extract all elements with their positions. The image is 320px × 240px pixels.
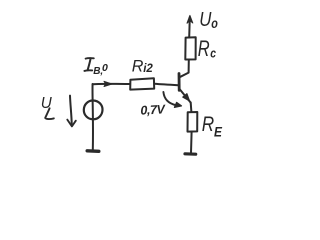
U_L voltage arrow	[70, 96, 72, 126]
svg-text:o: o	[211, 16, 218, 31]
transistor Q1 base bar	[178, 74, 181, 91]
wire top horizontal to Ri2	[93, 83, 130, 85]
svg-text:R: R	[132, 56, 144, 75]
U_o arrow above R_C	[188, 17, 191, 37]
svg-text:R: R	[202, 112, 214, 136]
transistor collector wire	[180, 60, 189, 77]
resistor R_C	[185, 37, 195, 59]
wire below R_E	[190, 132, 193, 153]
svg-text:c: c	[210, 47, 216, 61]
resistor R_E	[188, 112, 198, 132]
wire Ri2 to base	[154, 84, 178, 85]
wire left vertical through source	[91, 84, 94, 150]
svg-text:0: 0	[102, 62, 108, 74]
transistor emitter wire with arrow	[179, 89, 190, 103]
svg-text:U: U	[41, 95, 53, 112]
svg-text:E: E	[214, 124, 222, 140]
ground (left)	[87, 149, 99, 153]
label I_B,0	[86, 57, 94, 60]
svg-text:i2: i2	[143, 63, 153, 75]
0,7V voltage arc arrow	[163, 92, 176, 105]
ground (right)	[185, 152, 196, 156]
current source I_B,0 circle	[84, 100, 103, 119]
svg-text:U: U	[199, 8, 212, 31]
resistor Ri2	[130, 78, 154, 89]
current arrow on wire	[104, 81, 112, 86]
svg-text:R: R	[198, 37, 210, 62]
svg-text:0,7V: 0,7V	[140, 102, 167, 117]
